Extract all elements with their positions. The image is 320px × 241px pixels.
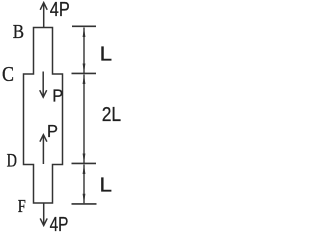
svg-text:D: D (7, 151, 17, 172)
svg-text:B: B (13, 21, 24, 43)
internal force arrow P up head (40, 135, 47, 142)
dim arrowhead up at C tick (83, 75, 86, 85)
svg-text:4P: 4P (50, 214, 69, 236)
svg-text:L: L (100, 43, 113, 66)
dimension line 2L (83, 75, 85, 164)
dim arrowhead up at D tick (83, 165, 86, 175)
dim arrowhead down at C tick (83, 64, 86, 74)
svg-text:2L: 2L (102, 104, 121, 126)
dimension tick F level (72, 203, 97, 205)
svg-text:P: P (47, 121, 58, 141)
force arrow 4P bottom head (40, 218, 47, 225)
svg-text:P: P (52, 86, 63, 106)
dimension tick C level (72, 72, 97, 74)
internal force arrow P down shaft (42, 72, 44, 97)
svg-text:4P: 4P (50, 0, 70, 21)
dimension tick top (B level) (72, 25, 96, 27)
dimension line L bottom (83, 165, 85, 204)
dim arrowhead down at D tick (83, 154, 86, 164)
dim arrowhead down at F tick (83, 194, 86, 204)
force arrow 4P top shaft (43, 3, 45, 28)
dim arrowhead up at top tick (83, 28, 86, 38)
stepped bar outline (24, 28, 63, 204)
force arrow 4P bottom shaft (43, 203, 45, 225)
svg-text:F: F (18, 196, 26, 216)
svg-text:L: L (100, 174, 113, 197)
svg-text:C: C (2, 62, 14, 86)
dimension line L top (83, 28, 85, 74)
force arrow 4P top head (40, 3, 47, 10)
dimension tick D level (72, 162, 97, 164)
internal force arrow P down head (40, 90, 47, 97)
internal force arrow P up shaft (42, 135, 44, 164)
